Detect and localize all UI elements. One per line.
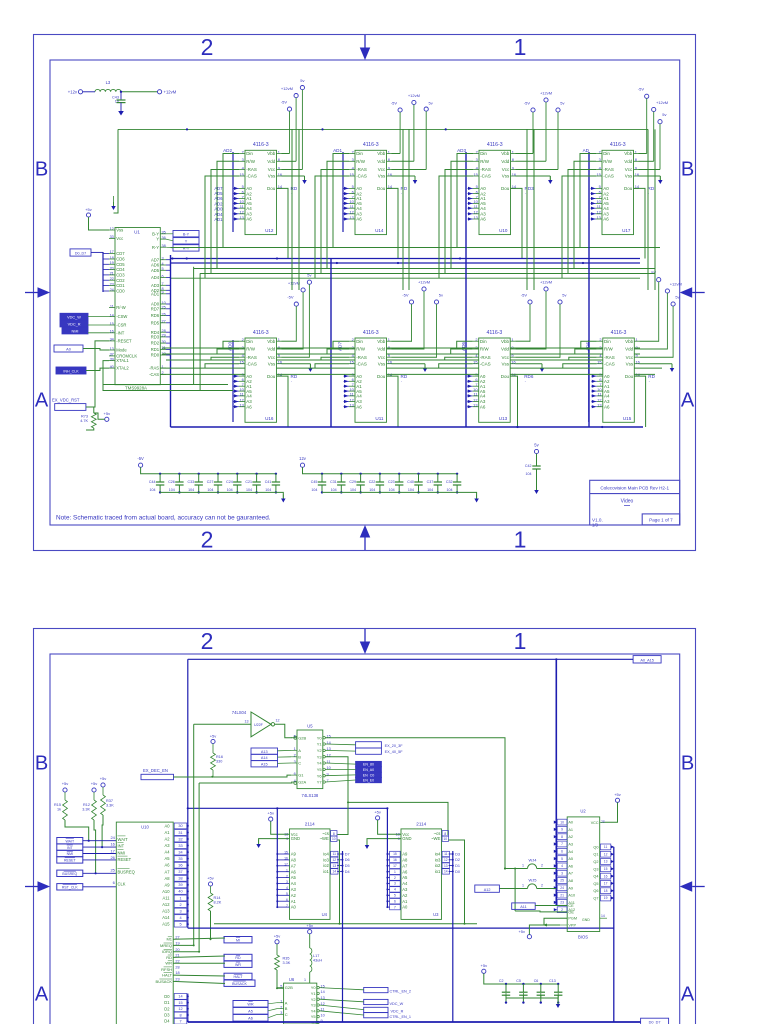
node data labels D7-D4 at U4 — [337, 852, 350, 873]
svg-text:AD7: AD7 — [151, 257, 160, 262]
border frame inner — [50, 654, 680, 1024]
svg-text:A8: A8 — [164, 876, 170, 881]
svg-text:-RAS: -RAS — [356, 167, 367, 172]
svg-text:A4: A4 — [603, 206, 609, 211]
node D0_D7 box bottom — [641, 1018, 669, 1024]
svg-text:-RESET: -RESET — [116, 339, 132, 344]
svg-text:Vdd: Vdd — [377, 159, 386, 164]
label box EX_20_3F — [356, 742, 404, 748]
node AD1 at U14 — [333, 148, 342, 153]
svg-text:19: 19 — [604, 896, 608, 900]
svg-text:C2: C2 — [499, 979, 504, 983]
svg-text:CTRL_EN_1: CTRL_EN_1 — [390, 1015, 412, 1019]
svg-text:+12v: +12v — [68, 89, 78, 94]
svg-text:RD: RD — [235, 956, 241, 960]
svg-text:C42: C42 — [525, 464, 532, 468]
label box RST_CLK — [57, 884, 83, 890]
svg-text:Vdd: Vdd — [501, 159, 510, 164]
svg-text:10: 10 — [443, 837, 447, 841]
svg-text:21: 21 — [560, 893, 564, 897]
svg-text:INT: INT — [118, 844, 125, 849]
bus vertical at U15 column — [588, 340, 590, 422]
svg-text:Q3: Q3 — [593, 867, 598, 871]
svg-text:A7: A7 — [291, 863, 297, 868]
RAM U4 2114 — [284, 822, 338, 920]
label box A0 — [54, 345, 83, 352]
wire U1 video outputs to boxes — [166, 234, 173, 248]
svg-text:VCC: VCC — [591, 821, 599, 825]
node RD6 at U13 Dout — [524, 374, 534, 383]
svg-text:11: 11 — [333, 852, 337, 856]
svg-text:-CAS: -CAS — [603, 174, 614, 179]
wire U3 WE to WR net — [448, 840, 464, 924]
IC U10 CPU Z80 — [110, 822, 173, 1024]
wire U10 Dout to RD3 net — [511, 188, 523, 258]
svg-text:RD: RD — [166, 955, 172, 960]
svg-text:Vcc: Vcc — [268, 355, 276, 360]
label box INT — [57, 844, 83, 850]
svg-text:A0: A0 — [66, 348, 71, 352]
svg-text:EN_80: EN_80 — [363, 763, 374, 767]
ground at C42 — [534, 486, 539, 494]
svg-text:A4: A4 — [480, 394, 486, 399]
wire U4 WE to WR net — [337, 840, 339, 924]
power terminal +5v at R12 — [91, 781, 98, 800]
svg-text:C: C — [285, 1012, 288, 1017]
power terminal +5v near U1 — [85, 207, 109, 230]
border frame outer — [34, 629, 696, 1024]
svg-text:A12: A12 — [162, 902, 170, 907]
wire 74LS04 output to U5 G2B — [275, 724, 297, 739]
svg-text:5v: 5v — [534, 443, 539, 448]
power terminal +5v at U3 — [374, 809, 401, 834]
svg-text:RD0: RD0 — [151, 353, 160, 358]
svg-text:A6: A6 — [603, 217, 609, 222]
svg-text:RD3: RD3 — [151, 335, 160, 340]
svg-text:R/W: R/W — [246, 347, 256, 352]
svg-text:Vcc: Vcc — [378, 167, 386, 172]
svg-text:104: 104 — [526, 472, 532, 476]
wires CPU control pins to boxes — [173, 938, 225, 984]
zone label A left — [35, 984, 49, 1006]
zone divider arrow right — [680, 881, 705, 892]
bus vertical to U4 address pins — [276, 808, 289, 908]
svg-text:B: B — [298, 754, 301, 759]
svg-text:A6: A6 — [604, 404, 610, 409]
zone label 1 top — [514, 628, 527, 654]
bus stub wedges into U13 address pins — [467, 375, 473, 409]
svg-text:Dou: Dou — [267, 374, 276, 379]
power cluster -5V +12vM 5v over U11 — [402, 279, 443, 357]
svg-text:A7: A7 — [164, 869, 170, 874]
svg-text:U11: U11 — [375, 416, 384, 421]
svg-text:5v: 5v — [662, 112, 666, 117]
svg-text:Din: Din — [246, 151, 253, 156]
svg-text:io2: io2 — [323, 863, 329, 868]
DRAM U16 4116-3 — [239, 330, 283, 423]
svg-text:D4: D4 — [164, 1019, 170, 1024]
svg-text:+5v: +5v — [374, 809, 381, 814]
label box CTRL_EN_1 — [364, 1013, 411, 1019]
IC U6 74LS138 decoder — [277, 977, 325, 1024]
label box BUSREQ — [57, 870, 83, 876]
wire A13 A14 A15 to U5 — [278, 750, 292, 763]
wire control lines U15 — [563, 341, 597, 368]
label box A5 — [233, 1008, 268, 1015]
svg-text:IORQ: IORQ — [162, 949, 172, 954]
svg-text:5: 5 — [561, 857, 563, 861]
svg-text:A10: A10 — [162, 889, 170, 894]
RAM U3 2114 — [390, 822, 450, 920]
svg-text:A6: A6 — [568, 864, 573, 868]
power terminal +5v at R37 — [100, 776, 107, 795]
svg-text:Vcc: Vcc — [502, 167, 510, 172]
wire top power rail — [114, 128, 649, 213]
power terminal +5v at R35 — [274, 933, 281, 955]
wire EX_DEC_EN to U5 G1 — [174, 775, 292, 778]
zone divider arrow left — [25, 881, 50, 892]
svg-text:BIOS: BIOS — [578, 935, 588, 940]
wire 74LS04 input — [194, 723, 251, 725]
svg-text:A2: A2 — [402, 893, 408, 898]
svg-text:A3: A3 — [164, 843, 170, 848]
svg-text:CE: CE — [568, 904, 574, 908]
power cluster -5V +12vM 5v over U10 — [524, 90, 565, 169]
power terminal +5v at R73 — [94, 411, 110, 421]
svg-text:RD6: RD6 — [151, 313, 160, 318]
svg-text:D1: D1 — [164, 1000, 170, 1005]
svg-text:A4: A4 — [356, 394, 362, 399]
svg-text:1: 1 — [179, 896, 181, 900]
wire U1 AD/RD pins to bus — [166, 260, 171, 355]
svg-text:Din: Din — [480, 339, 487, 344]
power cluster -5V +12vM 5v over U13 — [521, 279, 567, 357]
svg-text:BUSREQ: BUSREQ — [62, 872, 77, 876]
svg-text:NMI: NMI — [118, 850, 126, 855]
bus wire CD0-CD7 to U1 — [91, 252, 109, 292]
svg-text:3: 3 — [179, 909, 181, 913]
zone label B right — [681, 753, 694, 775]
label box A6 — [233, 1015, 268, 1022]
bus AD horizontal band — [171, 248, 661, 279]
svg-text:A4: A4 — [568, 850, 573, 854]
bus wire CPU A pins with number boxes — [162, 823, 189, 927]
power cluster -5V +12vM 5v over U17 — [638, 87, 668, 170]
svg-text:13: 13 — [444, 864, 448, 868]
wire A0 to U1 Mode — [83, 349, 109, 351]
capacitor C44 104 — [149, 473, 164, 494]
svg-text:8: 8 — [444, 832, 446, 836]
capacitor C27 104 — [207, 473, 222, 494]
svg-text:D3: D3 — [164, 1013, 170, 1018]
svg-text:104: 104 — [265, 488, 271, 492]
node RD at U17 Dout — [648, 186, 655, 195]
svg-text:1: 1 — [304, 978, 306, 982]
svg-text:NMI: NMI — [72, 329, 79, 333]
svg-text:VDC_W: VDC_W — [390, 1002, 404, 1006]
svg-text:C45: C45 — [311, 480, 318, 484]
label box A13 — [251, 748, 278, 754]
label box CTRL_EN_2 — [364, 988, 411, 994]
svg-text:Y1: Y1 — [311, 991, 317, 996]
svg-text:10: 10 — [560, 820, 564, 824]
svg-text:R12: R12 — [83, 803, 90, 807]
svg-text:MI: MI — [236, 938, 240, 942]
wire WR net horizontal — [214, 923, 477, 925]
svg-text:M1: M1 — [166, 937, 172, 942]
svg-text:A9: A9 — [291, 852, 297, 857]
svg-text:A2: A2 — [291, 893, 297, 898]
svg-text:74LS04: 74LS04 — [232, 710, 247, 715]
svg-text:Y7: Y7 — [317, 780, 323, 785]
capacitor C40 104 — [407, 473, 422, 494]
wire power riser U10b — [533, 129, 535, 290]
svg-text:AD4: AD4 — [151, 275, 160, 280]
svg-text:3.3K: 3.3K — [82, 808, 90, 812]
svg-text:OE: OE — [568, 910, 574, 914]
svg-text:1: 1 — [514, 34, 527, 60]
svg-text:1: 1 — [514, 527, 527, 553]
svg-text:XTAL2: XTAL2 — [116, 366, 129, 371]
svg-text:24: 24 — [560, 886, 564, 890]
inductor L17 43uH — [310, 948, 323, 983]
svg-text:io1: io1 — [323, 869, 329, 874]
svg-text:4116-3: 4116-3 — [253, 330, 269, 336]
bus D vertical at CPU — [187, 994, 189, 1023]
svg-text:Vss: Vss — [378, 361, 386, 366]
wire U5 Y1 Y2 to EX boxes — [325, 744, 355, 751]
zone divider arrow left — [25, 287, 50, 298]
power terminal +5v at U2 VCC — [605, 792, 621, 823]
ground at U14 — [413, 176, 418, 184]
label box RESET — [57, 857, 83, 863]
svg-text:104: 104 — [246, 488, 252, 492]
wires U6 outputs to boxes — [319, 988, 363, 1015]
svg-text:A15: A15 — [162, 922, 170, 927]
svg-text:INT: INT — [67, 846, 74, 850]
wire XTAL loop below U1 — [103, 361, 233, 391]
bus stub wedges into U12 address pins — [234, 187, 240, 221]
wire A11 to U2 — [535, 905, 567, 907]
svg-text:G1: G1 — [298, 773, 304, 778]
svg-text:U5: U5 — [307, 723, 313, 728]
svg-text:A14: A14 — [261, 756, 268, 760]
svg-text:1: 1 — [522, 864, 524, 868]
svg-text:C32: C32 — [446, 480, 453, 484]
svg-text:R16: R16 — [216, 755, 223, 759]
svg-text:HALT: HALT — [234, 975, 244, 979]
svg-text:Vss: Vss — [378, 174, 386, 179]
bus stub wedges into U15 address pins — [591, 375, 597, 409]
resistor R14 8.2K — [207, 876, 222, 940]
svg-text:-RAS: -RAS — [356, 355, 367, 360]
node AD5 at U15 — [585, 342, 590, 351]
wire control lines U16 — [205, 341, 239, 368]
note text — [56, 515, 271, 522]
svg-text:6: 6 — [561, 850, 563, 854]
label box EX_40_5F — [356, 748, 404, 754]
svg-text:Dou: Dou — [377, 374, 386, 379]
svg-text:Vss: Vss — [116, 228, 123, 233]
svg-text:C13: C13 — [549, 979, 556, 983]
power terminal +5v at page2 cap bank — [481, 963, 506, 984]
label box EN_C0 — [356, 772, 382, 777]
svg-text:Vbb: Vbb — [501, 339, 510, 344]
svg-text:A12: A12 — [484, 888, 491, 892]
wire power pins chip at x355 top row — [392, 154, 427, 181]
svg-text:+5v: +5v — [267, 811, 274, 816]
svg-text:A2: A2 — [568, 835, 573, 839]
capacitor C31 104 — [330, 473, 345, 494]
svg-text:Page 1 of 7: Page 1 of 7 — [649, 517, 673, 522]
svg-text:9: 9 — [561, 828, 563, 832]
svg-text:14: 14 — [332, 870, 336, 874]
svg-text:Y: Y — [185, 240, 188, 244]
svg-text:104: 104 — [227, 488, 233, 492]
bus stub wedges into U14 address pins — [344, 187, 350, 221]
DRAM U17 4116-3 — [596, 142, 640, 235]
svg-text:1k: 1k — [57, 808, 61, 812]
svg-text:35: 35 — [178, 857, 182, 861]
wire power riser U14 — [402, 129, 404, 290]
zone divider arrow top — [360, 35, 371, 60]
svg-text:R/W: R/W — [356, 159, 366, 164]
svg-text:BUSACK: BUSACK — [156, 979, 173, 984]
ground cap bank 2 — [474, 495, 479, 503]
svg-text:A: A — [681, 390, 695, 412]
svg-text:A5: A5 — [248, 1010, 253, 1014]
svg-text:A7: A7 — [568, 872, 573, 876]
svg-text:B: B — [285, 1006, 288, 1011]
svg-text:22: 22 — [175, 959, 179, 963]
svg-text:R/-W: R/-W — [116, 305, 126, 310]
svg-text:EN_E0: EN_E0 — [363, 779, 374, 783]
svg-text:4116-3: 4116-3 — [487, 142, 503, 148]
svg-text:A4: A4 — [246, 206, 252, 211]
zone label A right — [681, 390, 695, 412]
svg-text:-RAS: -RAS — [604, 355, 615, 360]
svg-text:Vcc: Vcc — [116, 236, 123, 241]
svg-text:5v: 5v — [439, 292, 443, 297]
svg-text:R37: R37 — [106, 799, 113, 803]
DRAM U10 4116-3 — [473, 142, 517, 235]
svg-text:-5V: -5V — [137, 456, 144, 461]
wire VDC_R to U1 CSR — [88, 324, 109, 326]
svg-text:A1: A1 — [291, 899, 297, 904]
svg-text:L17: L17 — [313, 954, 319, 958]
svg-text:C40: C40 — [407, 480, 414, 484]
capacitor C5 — [516, 979, 527, 1004]
wire power pins chip at x602 top row — [639, 154, 661, 181]
svg-text:+5v: +5v — [518, 929, 525, 934]
svg-text:A4: A4 — [291, 881, 297, 886]
svg-text:U10: U10 — [499, 228, 508, 233]
svg-text:R-Y: R-Y — [152, 245, 159, 250]
svg-text:R/W: R/W — [480, 347, 490, 352]
svg-text:A14: A14 — [162, 915, 170, 920]
svg-text:C: C — [298, 761, 301, 766]
svg-text:Y4: Y4 — [311, 1008, 317, 1013]
svg-text:104: 104 — [169, 488, 175, 492]
svg-text:VDC_R: VDC_R — [68, 322, 81, 326]
node RD at U14 Dout — [401, 186, 408, 195]
svg-text:4116-3: 4116-3 — [363, 142, 379, 148]
label box VDC_R out — [364, 1007, 404, 1013]
power terminal +12vM top-left — [158, 89, 177, 94]
label box A12 — [475, 885, 500, 892]
svg-text:D2: D2 — [455, 858, 460, 862]
wire U15 Dout to RD net — [634, 376, 645, 427]
svg-text:D7: D7 — [345, 852, 350, 856]
svg-text:D6: D6 — [345, 858, 350, 862]
wire U17 Dout to RD net — [634, 188, 646, 258]
svg-text:CD6: CD6 — [116, 257, 125, 262]
wire power riser U14b — [408, 129, 410, 290]
wire control lines U10 — [439, 154, 473, 279]
svg-text:3: 3 — [561, 871, 563, 875]
resistor R37 3.3K — [101, 795, 115, 847]
svg-text:INH_CLK: INH_CLK — [63, 370, 79, 374]
ground at U17 — [658, 176, 663, 184]
power cluster -5V +12vM 5v over U15 — [650, 270, 682, 358]
svg-text:+12vM: +12vM — [670, 281, 682, 286]
capacitor C33 104 — [188, 473, 203, 494]
label box BUSACK — [224, 980, 255, 986]
svg-text:74LS138: 74LS138 — [302, 793, 319, 798]
svg-text:+12vM: +12vM — [164, 89, 177, 94]
svg-text:Din: Din — [356, 151, 363, 156]
svg-text:Dou: Dou — [267, 186, 276, 191]
wire control lines U14 — [315, 154, 349, 279]
svg-text:5: 5 — [179, 922, 181, 926]
svg-text:-: - — [525, 191, 526, 195]
svg-text:Y0: Y0 — [311, 985, 317, 990]
bus stub wedges into U17 address pins — [591, 187, 597, 221]
svg-text:330: 330 — [216, 760, 222, 764]
svg-text:AD1: AD1 — [333, 148, 342, 153]
svg-text:RD2: RD2 — [151, 341, 160, 346]
label box RD — [224, 954, 252, 960]
svg-text:A4: A4 — [164, 850, 170, 855]
svg-text:A11: A11 — [520, 905, 526, 909]
svg-text:6: 6 — [113, 880, 116, 885]
bus wire CPU D pins with number boxes — [164, 994, 189, 1024]
svg-text:-: - — [401, 379, 402, 383]
capacitor C32 104 — [446, 473, 461, 494]
node data labels D3-D0 at U3 — [449, 852, 460, 873]
svg-text:AD1: AD1 — [151, 291, 160, 296]
svg-text:25: 25 — [560, 879, 564, 883]
wire power riser U12b — [298, 129, 300, 290]
svg-text:A3: A3 — [568, 843, 573, 847]
capacitor C29 104 — [349, 473, 364, 494]
ground below C43 — [118, 111, 124, 116]
svg-text:+12vM: +12vM — [281, 86, 293, 91]
zone label B right — [681, 159, 694, 181]
jumper WJ4 — [504, 858, 556, 870]
svg-text:-: - — [649, 379, 650, 383]
bus vertical at U12 column — [232, 152, 234, 232]
svg-text:Vss: Vss — [501, 361, 509, 366]
svg-text:13: 13 — [245, 719, 249, 723]
svg-text:MREQ: MREQ — [160, 943, 172, 948]
wires CPU bus control pins — [156, 935, 180, 984]
svg-text:Din: Din — [603, 151, 610, 156]
svg-text:A: A — [285, 1000, 288, 1005]
label box A15 — [251, 761, 278, 767]
wire control lines U13 — [439, 341, 473, 368]
svg-text:Y2: Y2 — [317, 748, 323, 753]
